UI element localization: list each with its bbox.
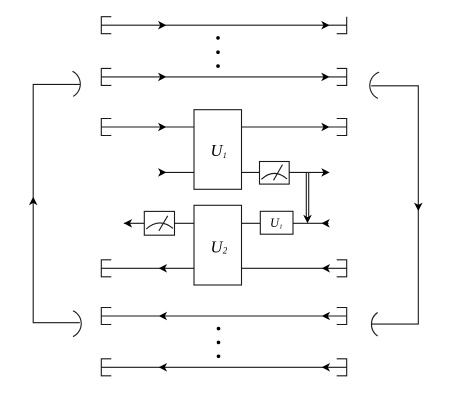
wire row 3 left segment xyxy=(101,126,194,128)
output bracket row 6 right xyxy=(337,260,347,277)
arrowhead feedback left (up-pointing) xyxy=(29,197,38,205)
wire row 5 right of Ut box xyxy=(293,222,329,224)
svg-text:U: U xyxy=(211,237,224,256)
input bracket row 2 left xyxy=(101,68,111,85)
svg-text:1: 1 xyxy=(279,224,282,231)
wire row 1 xyxy=(101,24,346,26)
arrowhead row 2 left (right-pointing) xyxy=(158,73,166,82)
output bracket row 8 right xyxy=(337,359,347,376)
correction box Ut xyxy=(260,211,293,234)
arrowhead row 7 left (left-pointing) xyxy=(159,312,167,321)
wire row 2 xyxy=(101,76,346,78)
arrowhead row 5 left (left-pointing) xyxy=(124,219,132,228)
unitary box U1 xyxy=(194,110,242,190)
meter M1 needle xyxy=(274,165,283,181)
arrowhead row 6 right (left-pointing) xyxy=(322,264,330,273)
classical double wire (measurement result) xyxy=(305,173,307,217)
feedback loop right wire xyxy=(371,86,418,324)
label U2 xyxy=(211,237,228,256)
arrowhead row 4 left (right-pointing) xyxy=(158,168,166,177)
arrowhead row 3 left (right-pointing) xyxy=(158,123,166,132)
svg-text:1: 1 xyxy=(223,151,227,160)
wire row 4 U1 to meter xyxy=(242,171,260,173)
continuation arc left top xyxy=(73,71,81,96)
feedback loop left wire xyxy=(33,84,80,322)
unitary box U2 xyxy=(194,205,242,285)
arrowhead row 3 right (right-pointing) xyxy=(321,123,329,132)
wire row 8 xyxy=(101,366,346,368)
vertical dots bottom xyxy=(217,327,221,358)
arrowhead row 6 left (left-pointing) xyxy=(159,264,167,273)
arrowhead feedback right (down-pointing) xyxy=(414,203,423,211)
svg-text:2: 2 xyxy=(223,246,228,256)
wire row 6 left segment xyxy=(101,267,194,269)
arrowhead classical wire (down-pointing) xyxy=(303,215,312,223)
arrowhead row 1 right (right-pointing) xyxy=(321,21,329,30)
wire row 4 meter to arrow xyxy=(289,171,326,173)
measurement meter M2 (row 5) xyxy=(144,211,174,235)
wire row 6 right segment xyxy=(242,267,347,269)
measurement meter M1 (row 4) xyxy=(260,162,290,185)
wire row 5 meter to U2 xyxy=(175,222,195,224)
wire row 5 U2 to Ut box xyxy=(242,222,261,224)
output bracket row 1 right (no top arm) xyxy=(337,17,347,34)
wire row 3 right segment xyxy=(242,126,347,128)
input bracket row 7 left xyxy=(101,308,111,325)
arrowhead row 5 right (left-pointing) xyxy=(321,219,329,228)
wire row 5 left arrow segment xyxy=(124,222,145,224)
input bracket row 1 left xyxy=(101,17,111,34)
continuation arc right bottom xyxy=(371,313,377,337)
meter M1 arc xyxy=(261,173,287,179)
arrowhead row 2 right (right-pointing) xyxy=(321,73,329,82)
input bracket row 8 left xyxy=(101,359,111,376)
output bracket row 2 right xyxy=(337,68,347,85)
arrowhead row 8 right (left-pointing) xyxy=(322,363,330,372)
meter M2 needle xyxy=(159,216,168,231)
label U1 xyxy=(211,141,227,160)
arrowhead row 4 right (right-pointing) xyxy=(321,168,329,177)
arrowhead row 1 left (right-pointing) xyxy=(158,21,166,30)
label Ut xyxy=(270,216,282,231)
meter M2 arc xyxy=(146,223,173,229)
input bracket row 3 left xyxy=(101,119,111,136)
continuation arc right top xyxy=(370,72,379,98)
output bracket row 3 right xyxy=(337,119,347,136)
wire row 7 xyxy=(101,315,346,317)
output bracket row 7 right xyxy=(337,308,347,325)
input bracket row 6 left xyxy=(101,260,111,277)
arrowhead row 8 left (left-pointing) xyxy=(159,363,167,372)
svg-text:U: U xyxy=(211,141,224,160)
continuation arc left bottom xyxy=(73,311,81,337)
wire row 4 left segment xyxy=(160,171,194,173)
arrowhead row 7 right (left-pointing) xyxy=(322,312,330,321)
vertical dots top xyxy=(216,36,220,68)
